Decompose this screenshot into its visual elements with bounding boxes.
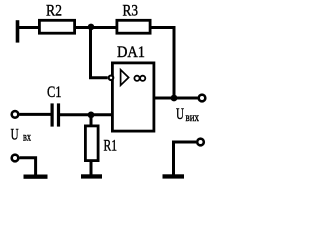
wire bar to R2 bbox=[18, 26, 40, 29]
node output junction bbox=[171, 95, 178, 102]
input lower terminal circle bbox=[12, 155, 19, 162]
ground under R1 bbox=[81, 174, 102, 178]
wire R1 to ground bbox=[90, 161, 93, 175]
svg-text:R2: R2 bbox=[46, 2, 62, 19]
svg-text:C1: C1 bbox=[47, 84, 62, 101]
ground bottom-left bbox=[24, 175, 48, 179]
svg-text:вих: вих bbox=[186, 110, 200, 124]
op-amp infinity symbol bbox=[134, 76, 139, 81]
wire feedback down from junction bbox=[91, 28, 108, 78]
svg-text:U: U bbox=[176, 106, 184, 123]
ground bottom-right bbox=[163, 174, 185, 178]
output lower terminal circle bbox=[197, 139, 204, 146]
inverting input circle bbox=[109, 76, 114, 81]
output terminal circle bbox=[199, 95, 206, 102]
resistor R1 bbox=[85, 126, 98, 161]
resistor R2 bbox=[39, 20, 74, 33]
wire C1 to op-amp noninverting input bbox=[60, 113, 112, 116]
wire lower terminal to ground bbox=[20, 158, 36, 175]
node junction C1/R1 bbox=[88, 112, 95, 119]
wire output lower terminal to ground bbox=[174, 142, 197, 175]
resistor R3 bbox=[117, 20, 150, 33]
output wire bbox=[154, 97, 198, 100]
input rail terminal bar bbox=[16, 20, 20, 42]
capacitor C1 bbox=[51, 103, 54, 126]
wire input to C1 bbox=[19, 113, 51, 116]
svg-text:U: U bbox=[11, 127, 19, 144]
wire R3 to output column bbox=[150, 28, 174, 99]
wire R2 to R3 bbox=[75, 26, 117, 29]
svg-text:DA1: DA1 bbox=[117, 44, 145, 61]
op-amp DA1 box bbox=[112, 63, 153, 131]
node junction R2/R3 bbox=[88, 24, 95, 31]
wire junction to R1 bbox=[90, 115, 93, 126]
svg-text:R3: R3 bbox=[123, 2, 139, 19]
op-amp triangle symbol bbox=[121, 70, 129, 85]
svg-text:вх: вх bbox=[23, 130, 31, 144]
svg-text:R1: R1 bbox=[104, 138, 118, 155]
input terminal circle bbox=[12, 111, 19, 118]
